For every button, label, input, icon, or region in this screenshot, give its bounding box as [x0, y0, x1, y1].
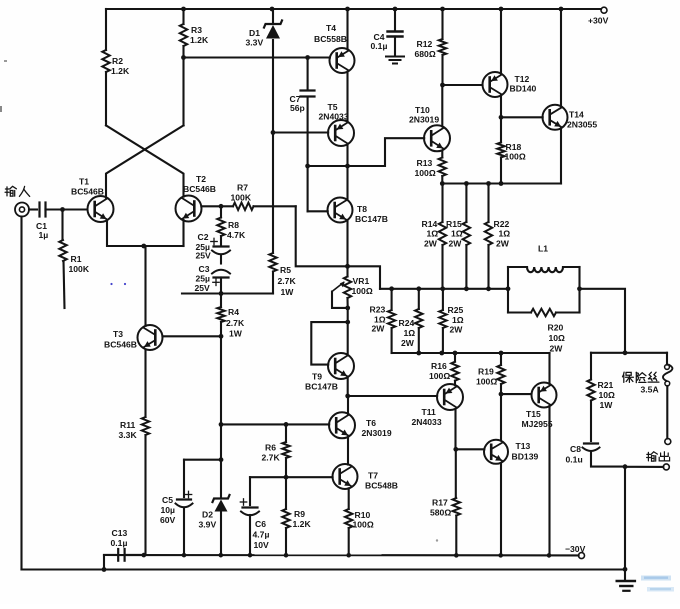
svg-text:1W: 1W: [229, 329, 243, 339]
svg-text:R18: R18: [506, 142, 522, 152]
svg-text:2N4033: 2N4033: [412, 417, 442, 427]
svg-text:1.2K: 1.2K: [111, 66, 130, 76]
wire T10 collector: [441, 85, 443, 126]
svg-text:T10: T10: [415, 105, 430, 115]
wire +30V supply rail: [106, 8, 601, 10]
capacitor C5: [160, 491, 193, 555]
resistor R16: [429, 353, 459, 385]
svg-text:R8: R8: [228, 220, 239, 230]
svg-text:2N3019: 2N3019: [409, 115, 439, 125]
svg-text:1W: 1W: [281, 287, 295, 297]
wire T6 emitter to T7: [347, 437, 349, 465]
transistor T6: [329, 412, 392, 438]
svg-text:R17: R17: [432, 498, 448, 508]
wire T13 base line: [456, 448, 485, 450]
svg-text:R20: R20: [548, 323, 564, 333]
svg-text:2N4033: 2N4033: [319, 112, 349, 122]
svg-text:T13: T13: [516, 441, 531, 451]
resistor R6: [262, 424, 290, 477]
svg-text:R6: R6: [265, 443, 276, 453]
terminal -30V: [565, 544, 586, 559]
svg-text:100Ω: 100Ω: [353, 520, 374, 530]
svg-text:2W: 2W: [496, 239, 510, 249]
svg-text:2N3055: 2N3055: [567, 120, 597, 130]
junction dot D1 line / T5 base line: [271, 130, 276, 135]
terminal +30V: [588, 7, 609, 25]
wire output to ground rail: [624, 467, 626, 570]
svg-text:R25: R25: [448, 305, 464, 315]
svg-text:C3: C3: [199, 264, 210, 274]
svg-text:10µ: 10µ: [161, 505, 176, 515]
svg-text:2W: 2W: [401, 338, 415, 348]
svg-text:VR1: VR1: [353, 276, 370, 286]
junction dot R12/T10/T12: [440, 83, 445, 88]
wire T8 emitter down to VR1: [345, 220, 350, 277]
wire rail to T12 collector: [500, 9, 502, 74]
ground symbol: [617, 570, 635, 591]
svg-text:R13: R13: [417, 158, 433, 168]
svg-text:2W: 2W: [450, 325, 464, 335]
svg-text:T14: T14: [569, 110, 584, 120]
svg-text:25V: 25V: [196, 251, 212, 261]
svg-text:1Ω: 1Ω: [451, 229, 463, 239]
terminal input jack: [15, 203, 29, 217]
svg-text:T4: T4: [326, 23, 336, 33]
svg-text:3.5A: 3.5A: [641, 385, 659, 395]
resistor R9: [282, 477, 311, 555]
resistor R24: [399, 289, 423, 353]
svg-text:BC546B: BC546B: [104, 340, 137, 350]
svg-text:0.1µ: 0.1µ: [371, 41, 388, 51]
capacitor C13: [104, 528, 144, 570]
wire bias column mid: [219, 336, 224, 427]
wire feedback bend: [296, 206, 380, 288]
svg-text:60V: 60V: [160, 515, 176, 525]
svg-text:680Ω: 680Ω: [415, 49, 436, 59]
svg-text:R16: R16: [431, 361, 447, 371]
wire C5 bracket: [184, 460, 221, 497]
svg-text:T6: T6: [366, 418, 376, 428]
wire T4 emitter to T5 collector: [346, 72, 348, 122]
svg-text:BC546B: BC546B: [71, 187, 104, 197]
capacitor C6: [240, 477, 269, 555]
wire T9/T11 base line: [348, 395, 437, 397]
wire T6 collector: [347, 396, 349, 414]
svg-text:100Ω: 100Ω: [505, 152, 526, 162]
resistor R11: [119, 350, 150, 555]
svg-text:R11: R11: [120, 420, 136, 430]
svg-text:BC147B: BC147B: [305, 382, 338, 392]
resistor R5: [269, 253, 296, 297]
svg-text:T3: T3: [113, 329, 123, 339]
wire L1 box left: [507, 267, 509, 313]
wire output-node rail: [380, 286, 510, 291]
svg-text:2W: 2W: [449, 239, 463, 249]
wire emitter rail: [440, 181, 561, 186]
svg-text:BD139: BD139: [512, 452, 539, 462]
resistor R23: [370, 289, 396, 353]
svg-text:1Ω: 1Ω: [427, 229, 439, 239]
transistor T3: [104, 325, 163, 350]
svg-text:2W: 2W: [550, 344, 564, 354]
svg-text:25V: 25V: [195, 283, 211, 293]
svg-text:D1: D1: [249, 28, 260, 38]
transistor T1: [71, 177, 114, 223]
zener diode D2: [199, 460, 230, 555]
wire T15 emitter down: [548, 406, 550, 555]
svg-text:T5: T5: [328, 102, 338, 112]
wire rail to T14 collector: [560, 9, 562, 106]
svg-text:R2: R2: [112, 56, 123, 66]
wire cross to T2 collector: [106, 125, 184, 196]
transistor T8: [328, 198, 388, 225]
transistor T10: [409, 105, 450, 151]
svg-text:−30V: −30V: [565, 544, 586, 554]
wire L1 box right: [577, 267, 582, 313]
svg-text:3.9V: 3.9V: [199, 520, 217, 530]
junction dot T8 emitter line: [345, 264, 350, 269]
resistor R17: [430, 449, 460, 555]
svg-text:100Ω: 100Ω: [429, 371, 450, 381]
ground symbol at C4: [386, 57, 404, 64]
terminal output: [628, 464, 669, 470]
resistor R20: [508, 309, 580, 354]
capacitor C4: [371, 9, 403, 56]
capacitor C7: [290, 58, 315, 212]
svg-text:R5: R5: [280, 265, 291, 275]
svg-text:2.7K: 2.7K: [278, 276, 297, 286]
resistor R14: [422, 184, 447, 289]
capacitor C1: [29, 203, 87, 241]
trimmer VR1: [332, 276, 373, 310]
wire T1 emitter: [107, 220, 184, 246]
svg-text:1Ω: 1Ω: [499, 229, 511, 239]
svg-text:T1: T1: [79, 177, 89, 187]
label input: [5, 186, 30, 196]
transistor T14: [543, 105, 598, 130]
svg-text:2W: 2W: [372, 324, 386, 334]
svg-text:R1: R1: [71, 254, 82, 264]
svg-text:4.7µ: 4.7µ: [253, 530, 270, 540]
wire L1 to output column: [580, 289, 628, 355]
svg-text:1.2K: 1.2K: [293, 519, 312, 529]
svg-text:R24: R24: [399, 318, 415, 328]
wire R6/T6 base line: [221, 422, 329, 427]
svg-text:1Ω: 1Ω: [452, 315, 464, 325]
transistor T13: [484, 440, 538, 464]
svg-text:+30V: +30V: [588, 16, 609, 26]
svg-text:2W: 2W: [424, 239, 438, 249]
transistor T9: [305, 353, 354, 392]
capacitor C3: [195, 264, 231, 294]
transistor T5: [319, 102, 355, 146]
svg-text:R14: R14: [422, 219, 438, 229]
svg-text:0.1u: 0.1u: [566, 455, 583, 465]
wire T15 collector up: [548, 353, 550, 384]
wire T2 emitter: [182, 220, 184, 246]
svg-text:BC147B: BC147B: [355, 214, 388, 224]
wire T9 base bracket: [311, 322, 347, 365]
svg-text:100Ω: 100Ω: [415, 168, 436, 178]
transistor T7: [333, 464, 398, 491]
resistor R8: [217, 206, 246, 244]
svg-text:C13: C13: [112, 528, 128, 538]
wire bias column low: [219, 424, 224, 462]
svg-text:C6: C6: [255, 519, 266, 529]
svg-text:C2: C2: [198, 232, 209, 242]
wire VR1 to T9: [345, 308, 350, 353]
svg-text:3.3K: 3.3K: [119, 430, 138, 440]
resistor R7: [221, 183, 296, 211]
svg-text:MJ2955: MJ2955: [522, 419, 553, 429]
resistor R19: [476, 353, 505, 397]
transistor T4: [314, 23, 355, 73]
transistor T15: [522, 383, 557, 430]
svg-text:0.1µ: 0.1µ: [111, 538, 128, 548]
svg-text:T8: T8: [357, 204, 367, 214]
transistor T2: [176, 174, 216, 222]
wire C3 bottom line: [182, 291, 273, 296]
wire T15 base: [501, 393, 531, 395]
wire T9 emitter: [345, 377, 350, 398]
svg-text:100K: 100K: [69, 264, 90, 274]
resistor R10: [345, 488, 374, 555]
capacitor C2: [196, 232, 231, 264]
svg-text:R10: R10: [355, 510, 371, 520]
wire input jack ground: [20, 217, 22, 570]
resistor R2: [102, 9, 130, 125]
resistor R1: [59, 210, 90, 309]
junction dot output/ground: [623, 464, 628, 469]
svg-text:BC548B: BC548B: [365, 481, 398, 491]
wire R3 node to T4 base: [181, 55, 330, 60]
resistor R18: [497, 117, 526, 183]
svg-text:R12: R12: [417, 39, 433, 49]
svg-text:1µ: 1µ: [39, 230, 49, 240]
junction dot C1/R1: [60, 207, 65, 212]
svg-text:10V: 10V: [254, 540, 270, 550]
junction dots on +30V rail: [181, 7, 563, 12]
wire T12 base: [443, 84, 483, 86]
resistor R15: [446, 184, 470, 289]
wire T13 emitter down: [500, 463, 502, 555]
svg-text:4.7K: 4.7K: [227, 230, 246, 240]
svg-text:T15: T15: [526, 409, 541, 419]
resistor R12: [415, 9, 447, 85]
wire T13 collector: [500, 394, 502, 441]
resistor R21: [587, 353, 615, 441]
svg-text:BC546B: BC546B: [183, 184, 216, 194]
resistor R13: [415, 151, 447, 184]
resistor R3: [180, 9, 209, 125]
svg-text:R4: R4: [228, 307, 239, 317]
resistor R25: [439, 289, 464, 353]
svg-text:BD140: BD140: [510, 84, 537, 94]
svg-text:10Ω: 10Ω: [599, 390, 616, 400]
label output: [647, 452, 670, 461]
wire rail to T4 collector: [346, 9, 348, 49]
svg-text:R19: R19: [478, 367, 494, 377]
wire T5 emitter to T8 collector: [345, 144, 350, 200]
wire -30V rail: [104, 553, 579, 558]
svg-text:R7: R7: [237, 183, 248, 193]
wire T14 base: [501, 116, 543, 118]
wire T2 base stub: [201, 204, 223, 209]
svg-text:1W: 1W: [600, 400, 614, 410]
svg-text:R3: R3: [191, 25, 202, 35]
wire T14 emitter down: [560, 128, 562, 183]
svg-text:T11: T11: [422, 407, 437, 417]
junction dot emitters: [141, 244, 146, 249]
fuse F1: [623, 353, 673, 445]
wire C7 line to T8 base: [305, 164, 328, 212]
svg-text:D2: D2: [202, 510, 213, 520]
transistor T11: [412, 384, 464, 427]
wire T10 base bracket: [308, 138, 425, 166]
inductor L1: [508, 244, 580, 273]
svg-text:T2: T2: [196, 174, 206, 184]
svg-text:R15: R15: [446, 219, 462, 229]
wire cross to T1 collector: [106, 125, 184, 197]
wire emitters to T3 collector: [144, 246, 146, 326]
svg-text:T7: T7: [368, 471, 378, 481]
wire bottom ground rail: [22, 567, 628, 572]
wire output node horizontal: [591, 352, 667, 354]
svg-text:100K: 100K: [231, 193, 252, 203]
wire R9/T7 base line: [250, 475, 333, 480]
svg-text:R9: R9: [294, 509, 305, 519]
svg-text:R21: R21: [598, 380, 614, 390]
svg-text:1.2K: 1.2K: [190, 35, 209, 45]
svg-text:BC558B: BC558B: [314, 34, 347, 44]
svg-text:580Ω: 580Ω: [430, 508, 451, 518]
svg-text:C5: C5: [162, 495, 173, 505]
svg-text:100Ω: 100Ω: [476, 377, 497, 387]
svg-text:1Ω: 1Ω: [404, 328, 416, 338]
wire T12 emitter down: [499, 96, 504, 120]
svg-text:56p: 56p: [290, 103, 305, 113]
wire T5 base line: [273, 131, 328, 133]
resistor R4: [217, 294, 245, 339]
wire T3 base line: [163, 335, 222, 337]
svg-text:25µ: 25µ: [196, 274, 211, 284]
svg-text:3.3V: 3.3V: [246, 38, 264, 48]
resistor R22: [485, 184, 510, 289]
svg-text:2.7K: 2.7K: [226, 318, 245, 328]
svg-text:C8: C8: [570, 444, 581, 454]
svg-text:T9: T9: [312, 372, 322, 382]
capacitor C8: [566, 444, 626, 467]
zener diode D1: [246, 9, 283, 253]
svg-text:100Ω: 100Ω: [352, 286, 373, 296]
svg-text:L1: L1: [538, 244, 548, 254]
svg-text:10Ω: 10Ω: [549, 333, 566, 343]
wire driver rail: [392, 351, 550, 356]
svg-text:R23: R23: [370, 305, 386, 315]
svg-text:T12: T12: [515, 74, 530, 84]
svg-text:2.7K: 2.7K: [262, 453, 281, 463]
svg-text:2N3019: 2N3019: [362, 428, 392, 438]
svg-text:R22: R22: [494, 219, 510, 229]
wire T11 emitter down: [453, 409, 458, 452]
transistor T12: [483, 72, 537, 97]
